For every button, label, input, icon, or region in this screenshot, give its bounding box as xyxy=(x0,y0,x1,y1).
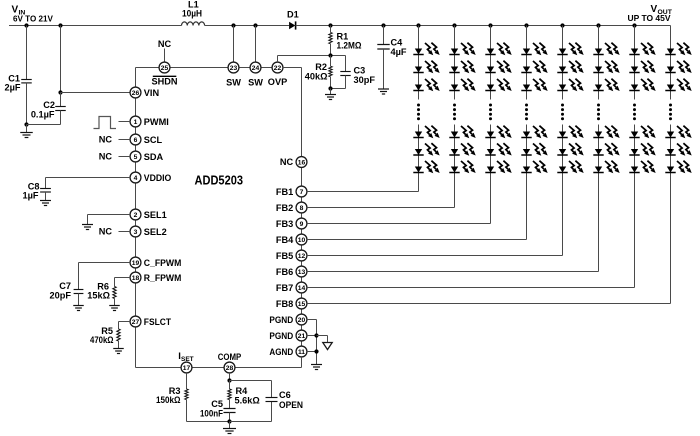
svg-text:22: 22 xyxy=(274,65,282,72)
resistor R5 xyxy=(118,322,120,330)
pin 15 FB8 xyxy=(296,298,307,309)
pin 3 SEL2 xyxy=(130,226,141,237)
wire NC SCL xyxy=(119,139,131,141)
pin 7 FB1 xyxy=(296,186,307,197)
svg-text:16: 16 xyxy=(298,159,306,166)
svg-text:PGND: PGND xyxy=(269,315,293,325)
pin 17 ISET xyxy=(181,362,192,373)
svg-text:R4: R4 xyxy=(236,386,249,396)
svg-text:VIN: VIN xyxy=(144,88,160,98)
svg-text:SEL1: SEL1 xyxy=(144,210,167,220)
svg-text:D1: D1 xyxy=(287,10,299,20)
junction C2 rail xyxy=(58,23,62,27)
pin 6 SCL xyxy=(130,134,141,145)
junction COMP top xyxy=(227,378,231,382)
LED string 3 xyxy=(307,23,512,223)
svg-text:13: 13 xyxy=(298,269,306,276)
svg-text:5.6kΩ: 5.6kΩ xyxy=(235,396,260,406)
pin 21 PGND xyxy=(296,330,307,341)
junction C4 rail xyxy=(381,23,385,27)
LED string 7 xyxy=(307,23,656,287)
svg-text:20pF: 20pF xyxy=(50,291,72,301)
svg-text:C6: C6 xyxy=(279,390,291,400)
svg-text:5: 5 xyxy=(134,154,138,161)
svg-text:2: 2 xyxy=(134,212,138,219)
junction SW1 rail xyxy=(231,23,235,27)
svg-text:SHDN: SHDN xyxy=(151,76,177,86)
svg-text:10: 10 xyxy=(298,237,306,244)
pin 27 FSLCT xyxy=(130,316,141,327)
wire PGND20 xyxy=(307,319,317,321)
wire input rail left xyxy=(9,25,182,27)
pin 13 FB6 xyxy=(296,266,307,277)
svg-text:SW: SW xyxy=(248,78,263,88)
ground C7 xyxy=(73,306,84,311)
pin 20 PGND xyxy=(296,314,307,325)
capacitor C5 xyxy=(223,409,235,413)
PWM pulse waveform symbol xyxy=(94,117,117,129)
LED string 6 xyxy=(307,23,620,271)
svg-text:PWMI: PWMI xyxy=(144,117,169,127)
svg-text:PGND: PGND xyxy=(269,331,293,341)
junction C2 VIN xyxy=(58,90,62,94)
LED string 2 xyxy=(307,23,476,207)
wire COMP stub xyxy=(229,373,231,381)
IC left edge wire xyxy=(135,68,137,88)
wire VDDIO to C8 xyxy=(46,177,131,179)
wire R3 bottom xyxy=(187,421,230,423)
svg-text:27: 27 xyxy=(132,319,140,326)
IC bottom edge wire xyxy=(136,367,182,369)
svg-text:18: 18 xyxy=(132,275,140,282)
svg-text:11: 11 xyxy=(298,349,305,356)
wire SW2 stub xyxy=(255,26,257,63)
capacitor C7 xyxy=(74,290,84,294)
resistor R1 xyxy=(330,26,332,33)
pin 2 SEL1 xyxy=(130,209,141,220)
pin 22 OVP xyxy=(272,62,283,73)
pin 4 VDDIO xyxy=(130,172,141,183)
svg-text:21: 21 xyxy=(298,333,306,340)
svg-text:10µH: 10µH xyxy=(182,9,202,19)
svg-text:FB6: FB6 xyxy=(276,267,293,277)
svg-text:FB5: FB5 xyxy=(276,251,293,261)
wire C2 to C1 ground xyxy=(27,124,61,126)
svg-text:FB7: FB7 xyxy=(276,283,293,293)
wire FSLCT to R5 xyxy=(119,321,131,323)
pin 8 FB2 xyxy=(296,202,307,213)
LED string 4 xyxy=(307,23,548,239)
svg-text:0.1µF: 0.1µF xyxy=(31,110,55,120)
pin 9 FB3 xyxy=(296,218,307,229)
svg-text:FB1: FB1 xyxy=(276,187,293,197)
svg-text:NC: NC xyxy=(158,39,172,49)
svg-text:SET: SET xyxy=(181,356,194,363)
capacitor C3 xyxy=(345,56,347,72)
svg-text:FB4: FB4 xyxy=(276,235,294,245)
pin 28 COMP xyxy=(224,362,235,373)
wire VIN xyxy=(61,92,131,94)
wire rail L1 to D1 xyxy=(205,25,290,27)
pin 25 SHDN xyxy=(159,62,170,73)
resistor R3 xyxy=(186,373,188,389)
LED string 5 xyxy=(307,23,584,255)
wire rail D1 to VOUT corner xyxy=(296,25,671,27)
svg-text:25: 25 xyxy=(161,65,169,72)
svg-text:40kΩ: 40kΩ xyxy=(305,71,328,81)
IC top edge wire xyxy=(136,67,160,69)
svg-text:7: 7 xyxy=(300,189,304,196)
ground PGND xyxy=(311,365,322,370)
svg-text:FB2: FB2 xyxy=(276,203,293,213)
capacitor C6 xyxy=(266,398,278,402)
wire OVP to divider xyxy=(277,56,279,63)
capacitor C2 xyxy=(60,93,62,107)
svg-text:COMP: COMP xyxy=(218,352,242,362)
wire SEL1 to ground xyxy=(88,214,131,216)
svg-text:ADD5203: ADD5203 xyxy=(195,173,244,188)
capacitor C4 xyxy=(383,26,385,45)
junction PGND21 xyxy=(314,333,318,337)
wire NC SDA xyxy=(119,156,131,158)
wire C_FPWM to C7 xyxy=(79,262,131,264)
svg-text:R_FPWM: R_FPWM xyxy=(144,273,182,283)
svg-text:4: 4 xyxy=(134,175,138,182)
wire C2 stub xyxy=(60,26,62,93)
svg-text:15kΩ: 15kΩ xyxy=(87,291,110,301)
resistor R2 xyxy=(330,56,332,67)
pin 26 VIN xyxy=(130,87,141,98)
pin 14 FB7 xyxy=(296,282,307,293)
ground SEL1 xyxy=(82,225,93,230)
wire NC to SHDN pin xyxy=(164,49,166,63)
pin 1 PWMI xyxy=(130,116,141,127)
svg-text:OPEN: OPEN xyxy=(279,400,303,410)
svg-text:2µF: 2µF xyxy=(4,83,20,93)
svg-text:9: 9 xyxy=(300,221,304,228)
svg-text:SDA: SDA xyxy=(144,152,164,162)
pin 12 FB5 xyxy=(296,250,307,261)
pin 5 SDA xyxy=(130,151,141,162)
svg-text:C7: C7 xyxy=(59,281,71,291)
svg-text:20: 20 xyxy=(298,317,306,324)
IC right edge wire xyxy=(283,67,302,69)
junction R1 R2 xyxy=(328,53,332,57)
LED string 8 xyxy=(307,26,692,304)
svg-text:14: 14 xyxy=(298,285,306,292)
svg-text:C_FPWM: C_FPWM xyxy=(144,258,182,268)
pin 18 R_FPWM xyxy=(130,272,141,283)
svg-text:23: 23 xyxy=(230,65,238,72)
ground R5 xyxy=(113,349,124,354)
pin 24 SW xyxy=(250,62,261,73)
pin 10 FB4 xyxy=(296,234,307,245)
wire R_FPWM to R6 xyxy=(115,277,131,279)
wire AGND11 xyxy=(307,351,317,353)
svg-text:12: 12 xyxy=(298,253,306,260)
ground C5 xyxy=(229,422,231,429)
ground C4 xyxy=(378,89,389,94)
wire to chassis symbol xyxy=(317,335,328,337)
svg-text:SW: SW xyxy=(226,78,241,88)
svg-text:17: 17 xyxy=(183,365,191,372)
ground C1 xyxy=(26,125,28,133)
svg-text:470kΩ: 470kΩ xyxy=(90,335,114,345)
svg-text:6V TO 21V: 6V TO 21V xyxy=(13,15,53,24)
wire PGND21 xyxy=(307,335,317,337)
wire NC SEL2 xyxy=(119,231,131,233)
svg-text:24: 24 xyxy=(252,65,260,72)
svg-text:UP TO 45V: UP TO 45V xyxy=(628,14,672,23)
svg-text:C2: C2 xyxy=(43,100,55,110)
svg-text:SCL: SCL xyxy=(144,135,163,145)
ground R6 xyxy=(109,306,120,311)
svg-text:28: 28 xyxy=(226,365,234,372)
svg-text:30pF: 30pF xyxy=(354,75,376,85)
capacitor C6 branch wires xyxy=(230,380,272,382)
pin 19 C_FPWM xyxy=(130,257,141,268)
svg-text:AGND: AGND xyxy=(269,347,293,357)
svg-text:NC: NC xyxy=(99,135,113,145)
junction C1 rail xyxy=(24,23,28,27)
capacitor C1 xyxy=(26,26,28,80)
svg-text:1.2MΩ: 1.2MΩ xyxy=(337,41,362,51)
resistor R4 xyxy=(229,381,231,390)
svg-text:SEL2: SEL2 xyxy=(144,227,167,237)
svg-text:19: 19 xyxy=(132,260,140,267)
svg-text:NC: NC xyxy=(280,157,294,167)
svg-text:FSLCT: FSLCT xyxy=(144,317,172,327)
svg-text:1: 1 xyxy=(134,119,138,126)
chassis ground triangle xyxy=(323,343,332,350)
svg-text:VDDIO: VDDIO xyxy=(144,173,172,183)
junction AGND11 xyxy=(314,349,318,353)
svg-text:C5: C5 xyxy=(211,399,223,409)
svg-text:8: 8 xyxy=(300,205,304,212)
pin 11 AGND xyxy=(296,346,307,357)
junction C5 ground xyxy=(227,419,231,423)
capacitor C8 xyxy=(40,189,51,193)
wire PWMI stub xyxy=(119,121,131,123)
svg-text:4µF: 4µF xyxy=(391,47,407,57)
ground R2 xyxy=(330,89,332,95)
svg-text:15: 15 xyxy=(298,301,306,308)
pin 23 SW xyxy=(228,62,239,73)
junction R1 rail xyxy=(328,23,332,27)
svg-text:FB8: FB8 xyxy=(276,299,293,309)
resistor R6 xyxy=(114,278,116,287)
svg-text:6: 6 xyxy=(134,137,138,144)
svg-text:NC: NC xyxy=(99,152,113,162)
svg-text:FB3: FB3 xyxy=(276,219,293,229)
svg-text:3: 3 xyxy=(134,229,138,236)
junction R2 ground xyxy=(328,86,332,90)
pin 16 NC xyxy=(296,157,307,168)
svg-text:26: 26 xyxy=(132,90,140,97)
ground C8 xyxy=(40,201,51,206)
junction C1 ground xyxy=(24,122,28,126)
svg-text:100nF: 100nF xyxy=(200,408,223,418)
wire SW1 stub xyxy=(233,26,235,63)
junction SW2 rail xyxy=(253,23,257,27)
svg-text:OVP: OVP xyxy=(268,77,287,87)
svg-text:1µF: 1µF xyxy=(22,191,38,201)
svg-text:NC: NC xyxy=(99,227,113,237)
svg-text:150kΩ: 150kΩ xyxy=(156,395,181,405)
LED string 1 xyxy=(307,23,440,191)
